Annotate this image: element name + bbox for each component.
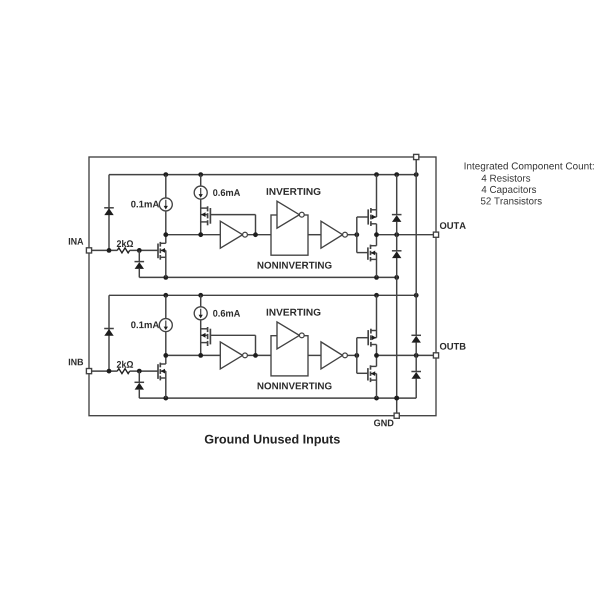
label GND	[374, 420, 394, 427]
label 0.1mA B	[131, 321, 159, 328]
current source 0.6mA A	[194, 175, 207, 200]
wire VDD rail channel B	[109, 293, 419, 298]
label 2k ohm A	[117, 240, 133, 247]
port INA pin square	[86, 248, 91, 253]
wire INA to resistor	[92, 248, 118, 253]
wire GND column	[394, 277, 399, 413]
diode input clamp low B (ground to input node)	[135, 371, 145, 398]
inverter buffer 1 B	[220, 342, 247, 369]
diode output clamp high A	[392, 175, 402, 235]
wire select box to inverter2 A	[308, 234, 321, 236]
label 2k ohm B	[117, 361, 133, 368]
label OUTA	[440, 222, 466, 229]
diode input clamp high B (input to VDD rail)	[104, 295, 114, 371]
port VDD pin square (top)	[414, 154, 419, 159]
label NONINVERTING B	[258, 382, 332, 389]
inverter on box A	[277, 201, 304, 228]
label INVERTING A	[267, 188, 321, 195]
wire gate feed B	[357, 338, 368, 374]
inverter on box B	[277, 322, 304, 349]
transistor output PMOS B	[368, 295, 376, 355]
port OUTA pin square	[433, 232, 438, 237]
wire input-stage node to inverter B	[163, 353, 220, 358]
wire select box to inverter2 B	[308, 354, 321, 356]
block invert select box A	[271, 215, 308, 255]
port INB pin square	[86, 369, 91, 374]
wire output node to OUTA A	[374, 232, 433, 237]
diode input clamp low A (ground to input node)	[135, 250, 145, 277]
wire ground rail channel A	[139, 275, 399, 280]
label INA	[69, 238, 84, 245]
transistor output PMOS A	[368, 175, 376, 235]
wire inverter1 to select box B	[248, 353, 272, 358]
diode output clamp low A	[392, 235, 402, 278]
diode output clamp high B	[411, 295, 421, 355]
label 0.1mA A	[131, 201, 159, 208]
wire cap gate to inverter output B	[210, 335, 255, 355]
diode input clamp high A (input to VDD rail)	[104, 175, 114, 251]
port OUTB pin square	[433, 353, 438, 358]
wire VDD pin to rails	[415, 160, 417, 296]
label 0.6mA A	[213, 189, 240, 196]
current source 0.6mA B	[194, 295, 207, 320]
inverter buffer 2 A	[321, 221, 347, 248]
IC outline box	[89, 157, 436, 416]
inverter buffer 1 A	[220, 221, 247, 248]
wire gate feed A	[357, 217, 368, 253]
resistor 2k ohm A	[117, 248, 129, 253]
inverter buffer 2 B	[321, 342, 347, 369]
wire resistor to input node A	[130, 248, 158, 253]
wire inverter2 to gates A	[347, 232, 359, 237]
port GND pin square (bottom)	[394, 413, 399, 418]
transistor output NMOS A	[368, 235, 377, 278]
label INB	[69, 359, 83, 366]
label OUTB	[440, 343, 466, 350]
wire input-stage node to inverter A	[163, 232, 220, 237]
wire inverter1 to select box A	[248, 232, 272, 237]
current source 0.1mA A	[159, 175, 172, 235]
diode output clamp low B	[411, 355, 421, 398]
wire INB to resistor	[92, 369, 118, 374]
label INVERTING B	[267, 309, 321, 316]
wire cap gate to inverter output A	[210, 215, 255, 235]
capacitor MOS cap A (drain source body tied)	[201, 199, 211, 235]
label NONINVERTING A	[258, 262, 332, 269]
caption Ground Unused Inputs	[205, 434, 340, 446]
wire ground rail channel B	[139, 396, 416, 401]
note Integrated Component Count	[465, 162, 594, 204]
block invert select box B	[271, 336, 308, 376]
wire resistor to input node B	[130, 369, 158, 374]
transistor output NMOS B	[368, 355, 377, 398]
transistor input NMOS B	[158, 355, 166, 398]
current source 0.1mA B	[159, 295, 172, 355]
wire inverter2 to gates B	[347, 353, 359, 358]
wire VDD rail channel A	[109, 172, 419, 177]
capacitor MOS cap B (drain source body tied)	[201, 320, 211, 356]
transistor input NMOS A	[158, 235, 166, 278]
resistor 2k ohm B	[117, 369, 129, 374]
label 0.6mA B	[213, 310, 240, 317]
wire output node to OUTB B	[374, 353, 433, 358]
